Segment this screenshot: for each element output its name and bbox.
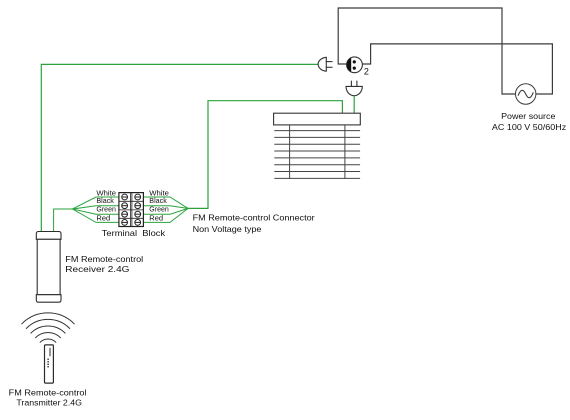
svg-text:Red: Red xyxy=(96,213,110,222)
svg-text:Terminal Block: Terminal Block xyxy=(102,228,166,238)
svg-text:FM Remote-control: FM Remote-control xyxy=(9,387,87,397)
wire: green fan left side (receiver to terminal block) xyxy=(54,197,119,232)
wire: black from socket left terminal up over the top to power source xyxy=(338,8,515,94)
plug P1 receiver power plug (prongs right) xyxy=(318,57,332,71)
terminal block TB1 xyxy=(119,193,143,227)
wire: green from connector point up and right into blind headrail xyxy=(188,101,342,209)
svg-text:AC 100 V 50/60Hz: AC 100 V 50/60Hz xyxy=(492,122,566,132)
svg-text:Receiver 2.4G: Receiver 2.4G xyxy=(65,264,129,274)
AC power source xyxy=(516,84,536,104)
wire labels right column xyxy=(149,188,169,222)
svg-text:2: 2 xyxy=(364,67,369,77)
transmitter xyxy=(45,345,54,383)
wire: green fan right side (terminal block to connector point) xyxy=(143,197,188,222)
svg-text:Transmitter 2.4G: Transmitter 2.4G xyxy=(16,397,82,407)
svg-text:Non Voltage type: Non Voltage type xyxy=(193,224,262,234)
receiver R1 xyxy=(36,232,61,303)
blind cords xyxy=(289,125,291,178)
socket / outlet 2 xyxy=(347,57,363,73)
svg-text:FM Remote-control Connector: FM Remote-control Connector xyxy=(193,213,315,223)
blind headrail xyxy=(274,113,361,125)
svg-text:FM Remote-control: FM Remote-control xyxy=(65,254,143,264)
radio waves xyxy=(22,313,74,342)
wire labels left column xyxy=(96,188,116,222)
blind slats xyxy=(275,131,360,179)
svg-text:Red: Red xyxy=(149,213,163,222)
svg-text:Power source: Power source xyxy=(501,111,556,121)
wire: green from plug P2 down into blind headrail xyxy=(353,96,355,113)
wire: green receiver cord (left vertical + top horizontal to plug) xyxy=(41,64,317,232)
wire: black from socket right terminal to power source right side xyxy=(362,44,552,94)
plug P2 blind power plug (prongs up) xyxy=(346,81,362,96)
